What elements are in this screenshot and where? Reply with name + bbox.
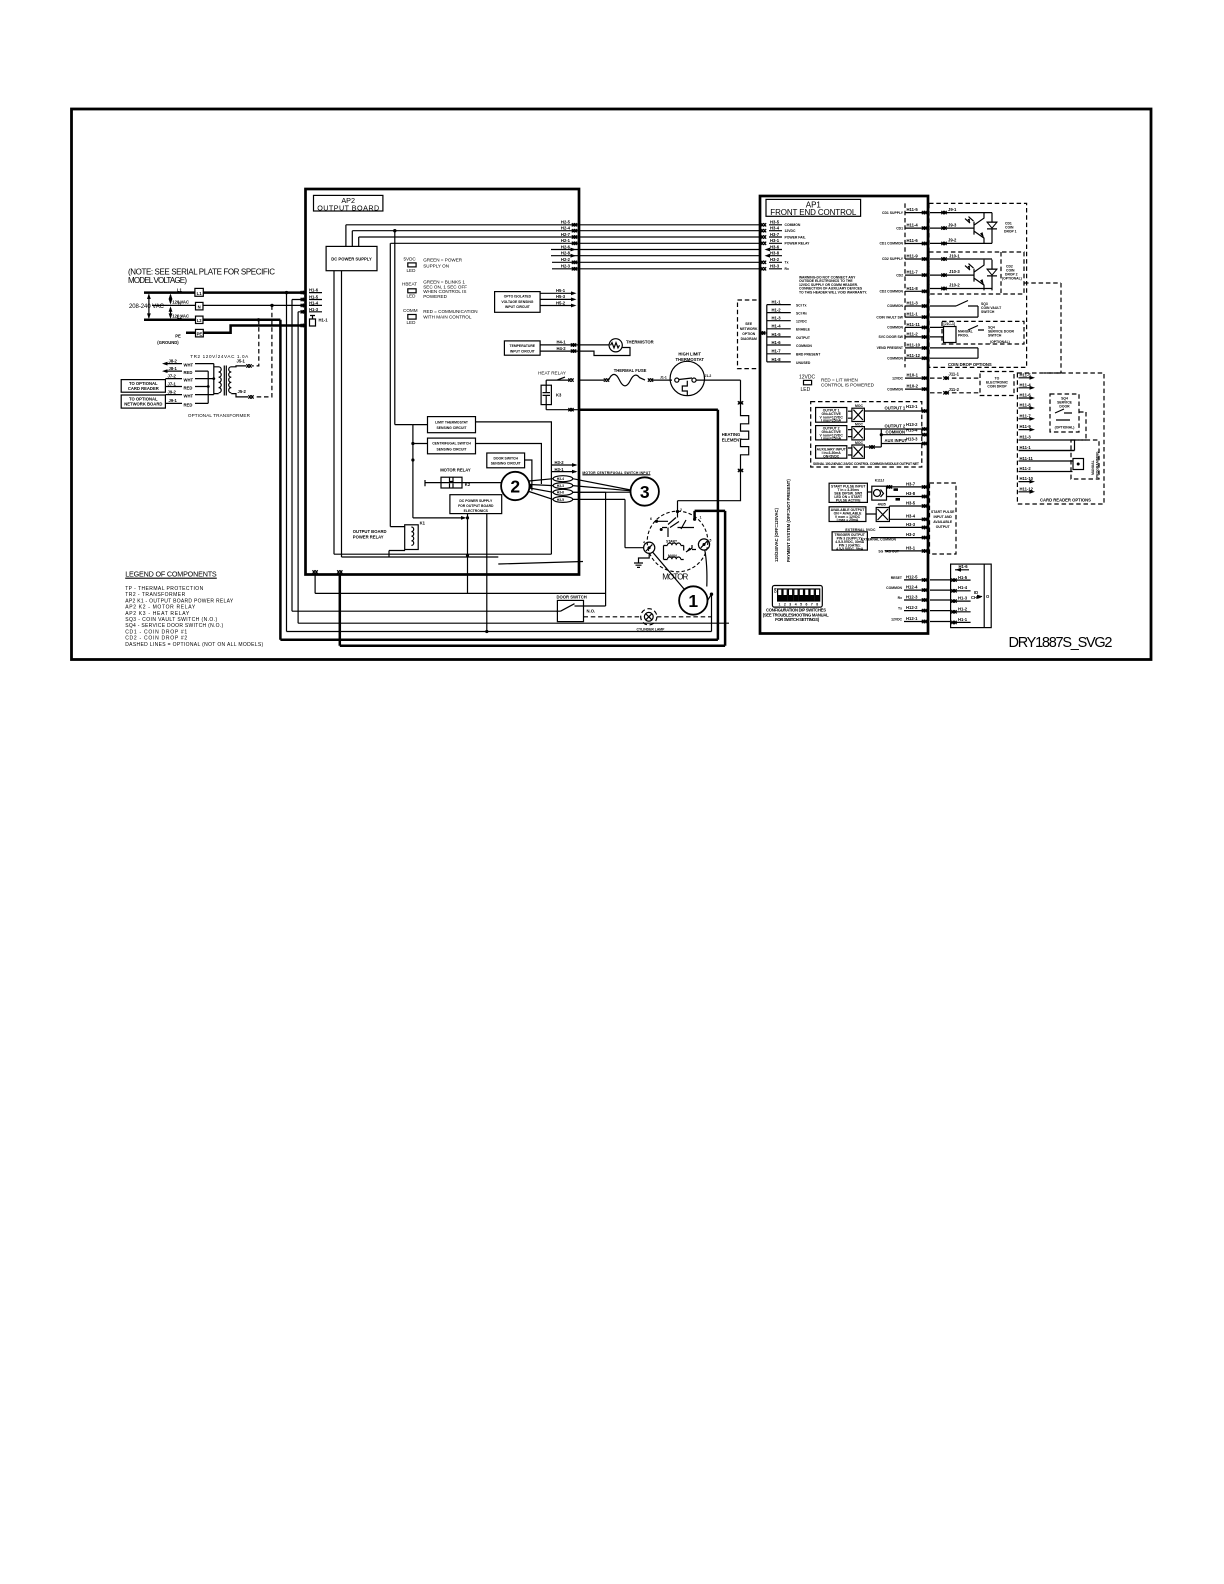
svg-text:H1-4: H1-4	[309, 300, 319, 305]
svg-text:H3-5: H3-5	[770, 220, 780, 225]
svg-text:12VDC: 12VDC	[891, 617, 902, 621]
svg-text:H1-5: H1-5	[772, 332, 782, 337]
svg-text:INPUT AND: INPUT AND	[934, 515, 953, 519]
svg-text:H11-3: H11-3	[907, 301, 919, 306]
svg-text:H5-3: H5-3	[556, 294, 566, 299]
svg-text:L2: L2	[197, 318, 203, 323]
svg-text:COMMON: COMMON	[887, 356, 903, 360]
svg-text:L2: L2	[177, 315, 183, 320]
svg-text:H2-8: H2-8	[561, 251, 571, 256]
svg-text:SQ3 - COIN VAULT SWITCH (N.O.): SQ3 - COIN VAULT SWITCH (N.O.)	[125, 617, 217, 623]
svg-text:HIGH LIMIT: HIGH LIMIT	[678, 351, 701, 356]
svg-text:DC POWER SUPPLY: DC POWER SUPPLY	[331, 257, 372, 262]
svg-text:2: 2	[784, 603, 786, 607]
svg-text:FOR OUTPUT BOARD: FOR OUTPUT BOARD	[458, 504, 494, 508]
svg-text:H3-5: H3-5	[906, 500, 916, 505]
svg-text:POWER RELAY: POWER RELAY	[353, 535, 384, 540]
svg-text:H11-8: H11-8	[907, 286, 919, 291]
svg-text:4.5-5.5VDC, 5mA: 4.5-5.5VDC, 5mA	[836, 547, 863, 551]
svg-text:DC POWER SUPPLY: DC POWER SUPPLY	[459, 499, 493, 503]
svg-text:MODEL VOLTAGE): MODEL VOLTAGE)	[128, 276, 187, 285]
svg-text:OUTPUT: OUTPUT	[936, 525, 951, 529]
svg-text:H3-3: H3-3	[770, 264, 780, 269]
svg-text:CD2 SUPPLY: CD2 SUPPLY	[882, 257, 904, 261]
svg-text:CARD READER: CARD READER	[128, 386, 159, 391]
svg-text:H1-3: H1-3	[309, 307, 319, 312]
svg-text:AP2 K1 - OUTPUT BOARD POWER RE: AP2 K1 - OUTPUT BOARD POWER RELAY	[125, 598, 234, 604]
svg-text:(OPTIONAL): (OPTIONAL)	[990, 340, 1010, 344]
svg-text:POWERED: POWERED	[423, 294, 447, 299]
svg-text:H4-1: H4-1	[557, 340, 567, 345]
svg-text:H1-5: H1-5	[309, 294, 319, 299]
svg-text:H11-12: H11-12	[907, 353, 921, 358]
svg-text:J7-1: J7-1	[168, 381, 177, 386]
svg-text:6: 6	[650, 517, 652, 521]
svg-text:H13-3: H13-3	[906, 437, 918, 442]
svg-text:6: 6	[806, 603, 808, 607]
svg-text:TEMPERATURE: TEMPERATURE	[510, 344, 536, 348]
svg-text:H1-6: H1-6	[309, 287, 319, 292]
svg-text:(OPTIONAL): (OPTIONAL)	[1055, 426, 1075, 430]
svg-text:H2-5: H2-5	[561, 220, 571, 225]
svg-text:COMMON: COMMON	[887, 387, 903, 391]
svg-text:H3-4: H3-4	[557, 477, 564, 481]
svg-text:K3: K3	[556, 392, 562, 397]
svg-text:4: 4	[643, 540, 645, 544]
svg-text:H13-4: H13-4	[906, 428, 918, 433]
svg-text:H5-1: H5-1	[556, 288, 566, 293]
svg-text:SIGNAL 100-240VAC 24VDC CON: SIGNAL 100-240VAC 24VDC CONTROL COMMON M…	[813, 462, 920, 466]
svg-text:CD2 - COIN DROP #2: CD2 - COIN DROP #2	[125, 636, 187, 642]
svg-text:SWITCH: SWITCH	[988, 334, 1002, 338]
svg-text:J10-1: J10-1	[949, 253, 960, 258]
svg-text:SCI Rx: SCI Rx	[796, 312, 807, 316]
svg-text:H3-2: H3-2	[770, 257, 780, 262]
svg-text:SUPPLY ON: SUPPLY ON	[423, 264, 449, 269]
svg-text:3: 3	[789, 603, 791, 607]
svg-text:RED = COMMUNICATION: RED = COMMUNICATION	[423, 309, 477, 314]
svg-text:CD1: CD1	[896, 226, 903, 230]
svg-text:AP2 K3 - HEAT RELAY: AP2 K3 - HEAT RELAY	[125, 611, 190, 617]
svg-text:H2-7: H2-7	[561, 232, 571, 237]
svg-text:FOR SWITCH SETTINGS): FOR SWITCH SETTINGS)	[775, 617, 820, 622]
svg-text:COMMON: COMMON	[887, 326, 903, 330]
svg-text:H3-7: H3-7	[770, 232, 780, 237]
svg-text:2: 2	[680, 508, 682, 512]
svg-text:BRD PRESENT: BRD PRESENT	[796, 353, 821, 357]
svg-text:K111J: K111J	[875, 479, 885, 483]
svg-text:H3-6: H3-6	[770, 244, 780, 249]
svg-text:MOC: MOC	[855, 441, 863, 445]
svg-text:FRONT END CONTROL: FRONT END CONTROL	[770, 208, 857, 217]
svg-text:AVAILABLE: AVAILABLE	[933, 520, 953, 524]
svg-text:12VDC: 12VDC	[785, 229, 796, 233]
svg-text:NETWORK BOARD: NETWORK BOARD	[124, 402, 162, 407]
svg-text:J7-2: J7-2	[168, 373, 177, 378]
svg-text:8: 8	[816, 603, 818, 607]
svg-text:DOOR SWITCH: DOOR SWITCH	[493, 456, 518, 460]
svg-text:MOC: MOC	[855, 404, 863, 408]
svg-text:12VDC: 12VDC	[796, 320, 807, 324]
svg-text:H11-2: H11-2	[1020, 466, 1032, 471]
svg-text:H11-6: H11-6	[907, 238, 919, 243]
svg-text:RED: RED	[184, 386, 193, 391]
svg-text:COMMON: COMMON	[886, 586, 902, 590]
svg-text:208-240 VAC: 208-240 VAC	[129, 304, 165, 310]
svg-text:PE: PE	[175, 333, 181, 338]
svg-text:O: O	[986, 594, 990, 599]
svg-text:CD1 - COIN DROP #1: CD1 - COIN DROP #1	[125, 629, 187, 635]
svg-text:INPUT CIRCUIT: INPUT CIRCUIT	[510, 349, 536, 353]
svg-text:RED: RED	[184, 370, 193, 375]
svg-text:OPTION: OPTION	[742, 332, 756, 336]
svg-text:SCI Tx: SCI Tx	[796, 304, 807, 308]
svg-text:J9-1: J9-1	[169, 398, 178, 403]
svg-text:3: 3	[640, 482, 650, 502]
svg-text:H13-1: H13-1	[906, 404, 918, 409]
svg-text:H1-6: H1-6	[772, 340, 782, 345]
svg-text:H1-3: H1-3	[772, 316, 782, 321]
svg-text:DRY1887S_SVG2: DRY1887S_SVG2	[1009, 635, 1113, 651]
svg-text:WHT: WHT	[184, 394, 194, 399]
svg-text:H1-1: H1-1	[772, 300, 782, 305]
svg-text:H3-8: H3-8	[906, 491, 916, 496]
svg-text:I max=25mA: I max=25mA	[821, 419, 841, 423]
svg-text:J11-1: J11-1	[949, 372, 960, 377]
svg-text:CARD READER OPTIONS: CARD READER OPTIONS	[1040, 498, 1091, 503]
svg-text:WITH MAIN CONTROL: WITH MAIN CONTROL	[423, 315, 472, 320]
svg-text:H1-4: H1-4	[772, 324, 782, 329]
svg-text:1: 1	[688, 591, 698, 611]
svg-text:H3-3: H3-3	[906, 522, 916, 527]
svg-text:12VDC: 12VDC	[799, 375, 816, 381]
svg-text:K1: K1	[420, 520, 426, 525]
svg-text:GREEN = POWER: GREEN = POWER	[423, 258, 463, 263]
svg-text:AUX INPUT: AUX INPUT	[885, 438, 908, 443]
svg-text:MOC: MOC	[855, 422, 863, 426]
svg-text:[J1C-1]: [J1C-1]	[944, 322, 956, 326]
svg-text:VOLTAGE SENSING: VOLTAGE SENSING	[501, 300, 533, 304]
svg-text:H1-5: H1-5	[958, 575, 968, 580]
svg-text:PE: PE	[197, 332, 203, 337]
svg-text:J10-2: J10-2	[949, 283, 960, 288]
svg-text:CD1 SUPPLY: CD1 SUPPLY	[882, 211, 904, 215]
svg-text:H1-3: H1-3	[958, 596, 968, 601]
svg-text:DOOR SWITCH: DOOR SWITCH	[557, 595, 587, 600]
svg-text:5VDC: 5VDC	[404, 256, 417, 261]
svg-text:H11-3: H11-3	[1020, 434, 1032, 439]
svg-text:OUTPUT 1: OUTPUT 1	[885, 406, 906, 411]
svg-text:120/240VAC (OFF=120VAC): 120/240VAC (OFF=120VAC)	[774, 507, 779, 562]
svg-text:COMMON: COMMON	[796, 344, 812, 348]
svg-text:LED: LED	[801, 387, 811, 393]
svg-text:OUTPUT BOARD: OUTPUT BOARD	[353, 529, 387, 534]
svg-text:COMMON: COMMON	[886, 429, 906, 434]
svg-text:H1-1: H1-1	[958, 617, 968, 622]
svg-text:H11-1: H11-1	[1020, 445, 1032, 450]
svg-text:H1-1: H1-1	[319, 318, 329, 323]
svg-text:ON=5VDC: ON=5VDC	[823, 454, 840, 458]
svg-text:CENTRIFUGAL SWITCH: CENTRIFUGAL SWITCH	[432, 442, 471, 446]
svg-text:H12-1: H12-1	[906, 616, 918, 621]
svg-text:J9-3: J9-3	[948, 222, 957, 227]
svg-text:H11-2: H11-2	[907, 332, 919, 337]
svg-text:H12-2: H12-2	[906, 605, 918, 610]
svg-text:LEGEND OF COMPONENTS: LEGEND OF COMPONENTS	[125, 569, 217, 578]
svg-text:DOOR: DOOR	[1059, 405, 1070, 409]
svg-text:N: N	[178, 301, 181, 306]
svg-text:CD1 COMMON: CD1 COMMON	[879, 242, 903, 246]
svg-text:J1-1: J1-1	[660, 375, 667, 379]
svg-text:2: 2	[510, 476, 520, 496]
svg-text:H1-7: H1-7	[772, 349, 782, 354]
svg-text:4: 4	[795, 603, 797, 607]
svg-text:DIAGRAM: DIAGRAM	[741, 337, 757, 341]
svg-text:HEAT RELAY: HEAT RELAY	[538, 370, 566, 375]
svg-text:H11-11: H11-11	[907, 322, 921, 327]
svg-text:H11-4: H11-4	[907, 223, 919, 228]
svg-text:H11-10: H11-10	[907, 343, 921, 348]
svg-text:H1-8: H1-8	[772, 357, 782, 362]
svg-text:SQ4 - SERVICE DOOR SWITCH (N.O: SQ4 - SERVICE DOOR SWITCH (N.O.)	[125, 623, 223, 629]
svg-text:LIMIT THERMOSTAT: LIMIT THERMOSTAT	[435, 420, 469, 424]
svg-text:K2: K2	[465, 482, 471, 487]
svg-text:H3-5: H3-5	[557, 498, 564, 502]
svg-text:H12-4: H12-4	[906, 585, 918, 590]
svg-text:H2-2: H2-2	[561, 257, 571, 262]
svg-text:TO THIS HEADER WILL VOID WARRA: TO THIS HEADER WILL VOID WARRANTY.	[799, 290, 867, 294]
svg-text:MANUAL: MANUAL	[1091, 460, 1095, 475]
svg-text:J9-2: J9-2	[168, 389, 177, 394]
svg-text:COIN VAULT SW: COIN VAULT SW	[876, 315, 903, 319]
svg-text:12VDC: 12VDC	[892, 376, 903, 380]
svg-text:OUTPUT: OUTPUT	[796, 336, 811, 340]
svg-text:PROGRAMMING: PROGRAMMING	[1096, 451, 1100, 478]
svg-text:J9-2: J9-2	[948, 238, 957, 243]
svg-text:J9-1: J9-1	[948, 207, 957, 212]
svg-text:HEATING: HEATING	[722, 432, 741, 437]
svg-text:H13-2: H13-2	[906, 422, 918, 427]
svg-text:J10-3: J10-3	[949, 269, 960, 274]
svg-text:SWITCH: SWITCH	[981, 310, 995, 314]
svg-text:H1-6: H1-6	[959, 564, 969, 569]
svg-text:I max=25mA: I max=25mA	[821, 437, 841, 441]
svg-text:5: 5	[800, 603, 802, 607]
svg-text:THERMAL FUSE: THERMAL FUSE	[614, 368, 647, 373]
svg-text:L1: L1	[177, 288, 183, 293]
svg-text:SEE: SEE	[745, 322, 753, 326]
svg-text:LED: LED	[407, 268, 417, 273]
svg-text:H11-9: H11-9	[907, 254, 919, 259]
svg-text:RED: RED	[184, 402, 193, 407]
svg-text:PAYMENT SYSTEM (OFF=NOT PRESEN: PAYMENT SYSTEM (OFF=NOT PRESENT)	[786, 479, 791, 562]
svg-text:MAIN: MAIN	[668, 554, 677, 558]
svg-text:Tx: Tx	[785, 261, 789, 265]
svg-text:PULSE ACTIVE: PULSE ACTIVE	[836, 498, 861, 502]
svg-text:ON: ON	[774, 587, 778, 593]
svg-text:H11-7: H11-7	[907, 270, 919, 275]
svg-text:N: N	[198, 305, 201, 310]
svg-text:4N35: 4N35	[878, 503, 886, 507]
svg-text:J1-2: J1-2	[705, 374, 712, 378]
svg-text:WHT: WHT	[184, 363, 194, 368]
svg-text:POWER FAIL: POWER FAIL	[785, 235, 806, 239]
svg-text:Rx: Rx	[785, 267, 789, 271]
svg-text:OUTPUT 2: OUTPUT 2	[885, 424, 906, 429]
svg-text:H3-4: H3-4	[906, 514, 916, 519]
svg-text:OUTPUT BOARD: OUTPUT BOARD	[317, 203, 379, 212]
svg-text:START PULSE: START PULSE	[931, 510, 955, 514]
svg-text:H2-3: H2-3	[561, 264, 571, 269]
svg-text:TP - THERMAL PROTECTION: TP - THERMAL PROTECTION	[125, 586, 203, 592]
svg-text:J5-2: J5-2	[238, 389, 247, 394]
svg-text:H11-5: H11-5	[907, 207, 919, 212]
svg-text:SENSING CIRCUIT: SENSING CIRCUIT	[437, 447, 468, 451]
svg-text:NETWORK: NETWORK	[740, 327, 758, 331]
svg-text:L1: L1	[197, 291, 203, 296]
svg-text:PROG.: PROG.	[958, 333, 969, 337]
svg-text:THERMISTOR: THERMISTOR	[626, 340, 654, 345]
svg-text:5: 5	[710, 538, 712, 542]
svg-text:H2-1: H2-1	[561, 238, 571, 243]
svg-text:(GROUND): (GROUND)	[157, 340, 179, 345]
svg-text:ENABLE: ENABLE	[796, 328, 811, 332]
svg-text:H3-1: H3-1	[906, 545, 916, 550]
svg-text:1: 1	[700, 515, 702, 519]
svg-text:Rx: Rx	[898, 596, 902, 600]
svg-text:H11-11: H11-11	[1020, 456, 1034, 461]
svg-text:H5-2: H5-2	[556, 300, 566, 305]
svg-text:7: 7	[811, 603, 813, 607]
svg-text:J5-1: J5-1	[237, 358, 246, 363]
svg-text:H3-1: H3-1	[770, 238, 780, 243]
svg-text:OPTO ISOLATED: OPTO ISOLATED	[504, 295, 532, 299]
svg-text:UNUSED: UNUSED	[796, 361, 811, 365]
svg-text:MOTOR RELAY: MOTOR RELAY	[440, 468, 471, 473]
svg-text:WHT: WHT	[184, 378, 194, 383]
svg-text:H3-3: H3-3	[557, 484, 564, 488]
svg-text:CYLINDER LAMP: CYLINDER LAMP	[637, 627, 666, 631]
svg-text:H1-2: H1-2	[958, 606, 968, 611]
svg-text:H11-1: H11-1	[907, 312, 919, 317]
svg-text:CONTROL IS POWERED: CONTROL IS POWERED	[821, 383, 875, 388]
svg-text:VEND PRESENT: VEND PRESENT	[877, 346, 904, 350]
svg-text:AP2 K2 - MOTOR RELAY: AP2 K2 - MOTOR RELAY	[125, 605, 196, 611]
svg-text:SENSING CIRCUIT: SENSING CIRCUIT	[491, 462, 522, 466]
svg-text:LED: LED	[407, 320, 417, 325]
svg-text:DROP 1: DROP 1	[1004, 230, 1017, 234]
svg-text:COIN DROP: COIN DROP	[987, 385, 1007, 389]
svg-text:HBEAT: HBEAT	[402, 281, 417, 286]
svg-text:H10-1: H10-1	[907, 373, 919, 378]
svg-text:H3-7: H3-7	[906, 481, 916, 486]
svg-text:COMMON: COMMON	[785, 223, 801, 227]
svg-text:INPUT CIRCUIT: INPUT CIRCUIT	[505, 305, 531, 309]
svg-text:H1-4: H1-4	[958, 585, 968, 590]
svg-text:N.O.: N.O.	[587, 609, 596, 614]
svg-text:H12-5: H12-5	[906, 574, 918, 579]
svg-text:TR2 - TRANSFORMER: TR2 - TRANSFORMER	[125, 592, 185, 598]
svg-text:H10-2: H10-2	[907, 384, 919, 389]
svg-text:MOTOR: MOTOR	[662, 572, 688, 581]
svg-text:DASHED LINES = OPTIONAL (NOT O: DASHED LINES = OPTIONAL (NOT ON ALL MODE…	[125, 642, 263, 648]
svg-text:H4-2: H4-2	[557, 346, 567, 351]
svg-text:H3-2: H3-2	[906, 532, 916, 537]
svg-text:COMMON: COMMON	[887, 304, 903, 308]
svg-text:LED: LED	[407, 294, 417, 299]
svg-text:CD2: CD2	[896, 273, 903, 277]
svg-text:I max = 25mA: I max = 25mA	[837, 518, 859, 522]
svg-text:ELECTRONICS: ELECTRONICS	[464, 509, 489, 513]
svg-text:OPTIONAL TRANSFORMER: OPTIONAL TRANSFORMER	[188, 413, 251, 418]
svg-text:H12-3: H12-3	[906, 594, 918, 599]
svg-text:RESET: RESET	[891, 576, 903, 580]
svg-text:ELEMENT: ELEMENT	[722, 438, 742, 443]
svg-text:J8-1: J8-1	[169, 366, 178, 371]
svg-text:H3-4: H3-4	[770, 226, 780, 231]
svg-text:H1-2: H1-2	[772, 308, 782, 313]
svg-text:POWER RELAY: POWER RELAY	[785, 242, 811, 246]
svg-text:(OPTIONAL): (OPTIONAL)	[1002, 277, 1022, 281]
svg-text:1: 1	[779, 603, 781, 607]
svg-text:START: START	[666, 540, 678, 544]
svg-text:H3-6: H3-6	[557, 491, 564, 495]
svg-text:J11-2: J11-2	[949, 387, 960, 392]
svg-text:Tx: Tx	[898, 607, 902, 611]
svg-text:COIN DROP OPTIONS: COIN DROP OPTIONS	[948, 362, 992, 367]
svg-text:SENSING CIRCUIT: SENSING CIRCUIT	[437, 426, 468, 430]
svg-text:COMM: COMM	[403, 308, 418, 313]
svg-text:H2-4: H2-4	[561, 226, 571, 231]
svg-text:CD2 COMMON: CD2 COMMON	[879, 290, 903, 294]
svg-text:H2-6: H2-6	[561, 244, 571, 249]
svg-text:SVC DOOR SW: SVC DOOR SW	[879, 335, 904, 339]
svg-text:J8-2: J8-2	[169, 358, 178, 363]
svg-text:H3-8: H3-8	[770, 251, 780, 256]
